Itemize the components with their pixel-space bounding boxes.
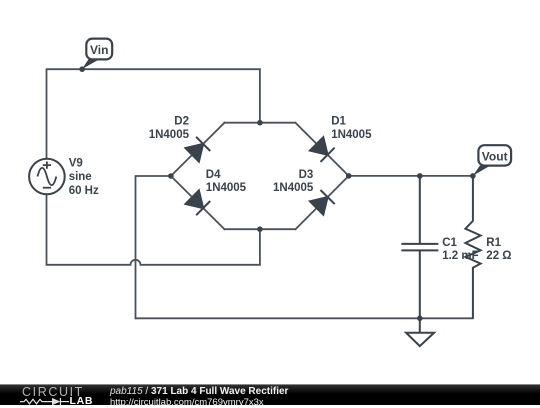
wire source bottom to bridge bottom node (with hop over left vertical wire)	[47, 194, 260, 264]
svg-text:D2: D2	[174, 116, 189, 128]
node bridge right vertex	[346, 173, 352, 179]
label D2	[149, 116, 190, 141]
diode D2	[186, 137, 211, 162]
node bridge left vertex	[168, 173, 174, 179]
svg-text:D4: D4	[206, 169, 221, 181]
svg-text:1N4005: 1N4005	[149, 129, 190, 141]
svg-text:22 Ω: 22 Ω	[486, 250, 511, 262]
svg-text:Vout: Vout	[482, 150, 508, 164]
node bridge bottom	[257, 226, 263, 232]
node Vin tap	[79, 66, 85, 72]
svg-text:Vin: Vin	[90, 43, 108, 57]
svg-text:LAB: LAB	[70, 395, 94, 406]
wire Vin top rail from source to bridge top	[47, 69, 260, 159]
svg-text:R1: R1	[486, 237, 501, 249]
wire bridge top edge	[225, 122, 296, 124]
node ground junction	[417, 316, 423, 322]
node bridge top	[257, 120, 263, 126]
svg-text:D1: D1	[331, 116, 346, 128]
diode D3	[310, 190, 335, 215]
svg-text:C1: C1	[442, 237, 457, 249]
node Vout tap	[470, 173, 476, 179]
wire bridge lower-right edge (D3 branch)	[296, 176, 349, 229]
net label Vout	[473, 145, 511, 176]
node capacitor top	[417, 173, 423, 179]
wire output rail right vertex to Vout corner	[349, 175, 473, 177]
ground	[406, 318, 434, 346]
diode D1	[310, 137, 335, 162]
wire bridge upper-left edge (D2 branch)	[171, 123, 225, 176]
CircuitLab logo	[0, 385, 110, 406]
wire bridge lower-left edge (D4 branch)	[171, 176, 225, 229]
svg-text:sine: sine	[69, 171, 92, 183]
label C1	[442, 237, 478, 262]
svg-text:1N4005: 1N4005	[273, 182, 314, 194]
wire bottom rail	[136, 317, 473, 319]
svg-text:60 Hz: 60 Hz	[69, 185, 99, 197]
label D3	[273, 169, 314, 194]
voltage source V9	[29, 159, 65, 195]
label R1	[486, 237, 511, 262]
capacitor C1	[401, 176, 438, 318]
resistor R1	[465, 176, 480, 318]
svg-text:1N4005: 1N4005	[206, 182, 247, 194]
svg-text:D3: D3	[299, 169, 314, 181]
svg-text:V9: V9	[69, 157, 83, 169]
footer title text	[110, 386, 288, 408]
wire bridge bottom edge	[225, 228, 296, 230]
label D4	[206, 169, 247, 194]
svg-text:1N4005: 1N4005	[331, 129, 372, 141]
wire left vertex to bottom rail	[136, 176, 171, 318]
diode D4	[186, 190, 211, 215]
net label Vin	[82, 39, 112, 69]
label V9 value	[69, 157, 99, 197]
wire bridge upper-right edge (D1 branch)	[296, 123, 349, 176]
label D1	[331, 116, 372, 141]
